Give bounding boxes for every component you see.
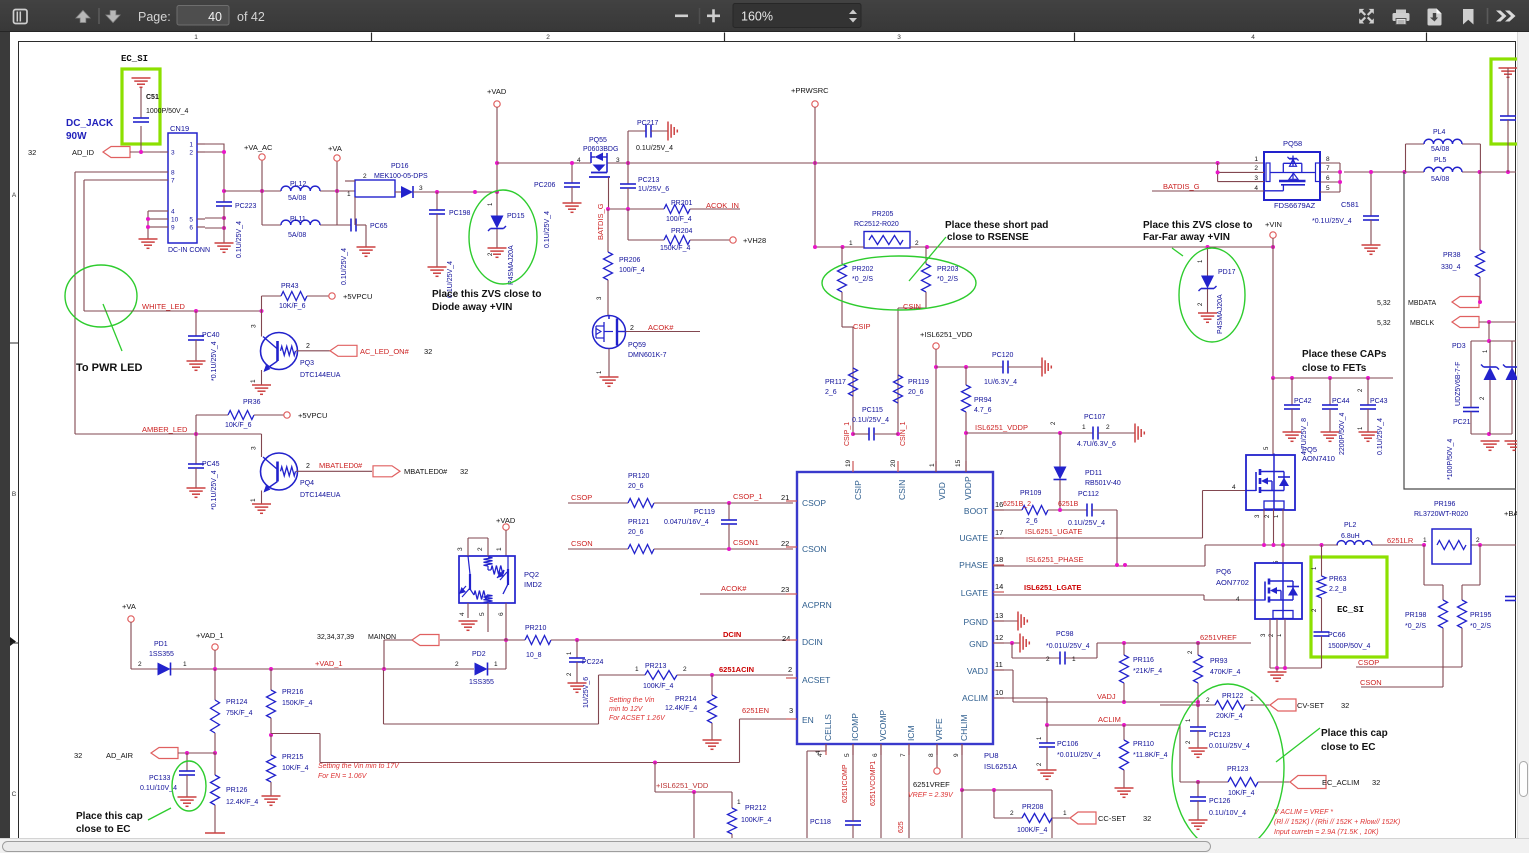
svg-text:FDS6679AZ: FDS6679AZ [1274, 201, 1316, 210]
svg-text:CHLIM: CHLIM [959, 715, 969, 741]
svg-text:PC217: PC217 [637, 120, 659, 127]
svg-text:13: 13 [995, 611, 1003, 620]
svg-text:10K/F_6: 10K/F_6 [279, 303, 306, 310]
svg-text:5: 5 [189, 217, 193, 224]
svg-text:DCIN: DCIN [723, 630, 741, 639]
svg-text:4: 4 [1232, 484, 1236, 491]
svg-text:AC_LED_ON#: AC_LED_ON# [360, 347, 410, 356]
svg-text:PR119: PR119 [908, 379, 929, 386]
svg-text:1500P/50V_4: 1500P/50V_4 [1328, 643, 1371, 650]
svg-text:To PWR LED: To PWR LED [76, 362, 142, 374]
svg-text:AD_ID: AD_ID [72, 148, 95, 157]
svg-text:6251VREF: 6251VREF [913, 780, 950, 789]
svg-text:15: 15 [955, 459, 962, 467]
svg-text:CSIN: CSIN [903, 302, 921, 311]
svg-text:PQ3: PQ3 [300, 360, 314, 367]
svg-text:*0.1U/25V_4: *0.1U/25V_4 [1312, 218, 1352, 225]
svg-text:CSON: CSON [1360, 678, 1382, 687]
svg-text:PR195: PR195 [1470, 612, 1492, 619]
svg-text:ACLIM: ACLIM [962, 693, 988, 703]
svg-text:PD11: PD11 [1085, 470, 1102, 477]
svg-text:PR214: PR214 [675, 696, 697, 703]
svg-text:150K/F_4: 150K/F_4 [282, 700, 312, 707]
svg-text:PD16: PD16 [391, 163, 409, 170]
svg-text:2: 2 [477, 547, 484, 551]
svg-text:PC65: PC65 [370, 223, 388, 230]
svg-text:2: 2 [306, 463, 310, 470]
svg-text:1: 1 [189, 142, 193, 149]
svg-text:PR213: PR213 [645, 663, 667, 670]
svg-text:PQ6: PQ6 [1216, 567, 1231, 576]
svg-text:PR206: PR206 [619, 257, 641, 264]
svg-text:6.8uH: 6.8uH [1341, 533, 1360, 540]
svg-text:*0.01U/25V_4: *0.01U/25V_4 [1046, 643, 1090, 650]
svg-text:32: 32 [424, 347, 432, 356]
svg-text:*11.8K/F_4: *11.8K/F_4 [1133, 752, 1168, 759]
svg-text:ICM: ICM [906, 725, 916, 741]
svg-text:32: 32 [1341, 701, 1349, 710]
svg-text:1000P/50V_4: 1000P/50V_4 [146, 108, 189, 115]
svg-text:of 42: of 42 [237, 10, 265, 24]
svg-text:*0_2/S: *0_2/S [852, 276, 873, 283]
svg-text:PR126: PR126 [226, 787, 248, 794]
svg-text:100K/F_4: 100K/F_4 [741, 817, 771, 824]
svg-text:24: 24 [782, 634, 790, 643]
svg-text:VDDP: VDDP [963, 476, 973, 500]
svg-text:DTC144EUA: DTC144EUA [300, 492, 341, 499]
svg-text:PR216: PR216 [282, 689, 304, 696]
svg-text:2: 2 [1106, 424, 1110, 431]
svg-text:0.1U/25V_4: 0.1U/25V_4 [236, 221, 243, 258]
svg-text:Place this ZVS close to: Place this ZVS close to [432, 289, 541, 300]
svg-text:RL3720WT-R020: RL3720WT-R020 [1414, 511, 1468, 518]
svg-text:6: 6 [498, 612, 505, 616]
svg-text:B: B [12, 491, 16, 498]
svg-text:2: 2 [306, 343, 310, 350]
svg-text:CSIP_1: CSIP_1 [844, 422, 851, 446]
svg-text:3: 3 [897, 34, 901, 41]
svg-text:1: 1 [1072, 656, 1076, 663]
svg-text:PC224: PC224 [582, 659, 604, 666]
svg-text:6251EN: 6251EN [742, 706, 769, 715]
svg-text:+VIN: +VIN [1265, 220, 1282, 229]
svg-text:14: 14 [995, 582, 1003, 591]
svg-text:8: 8 [928, 753, 935, 757]
svg-text:3: 3 [789, 706, 793, 715]
svg-text:3: 3 [457, 547, 464, 551]
svg-text:PC123: PC123 [1209, 732, 1231, 739]
svg-text:EC_SI: EC_SI [1337, 605, 1364, 615]
svg-text:*0.01U/25V_4: *0.01U/25V_4 [1057, 752, 1101, 759]
svg-text:32: 32 [1143, 814, 1151, 823]
svg-text:PR36: PR36 [243, 399, 261, 406]
svg-text:7: 7 [900, 753, 907, 757]
svg-text:330_4: 330_4 [1441, 264, 1461, 271]
svg-text:2: 2 [1046, 656, 1050, 663]
svg-text:2: 2 [915, 240, 919, 247]
svg-text:8: 8 [1326, 156, 1330, 163]
svg-text:*0_2/S: *0_2/S [937, 276, 958, 283]
svg-text:PC40: PC40 [202, 332, 220, 339]
svg-text:20: 20 [890, 459, 897, 467]
svg-text:DCIN: DCIN [802, 637, 823, 647]
svg-text:PC120: PC120 [992, 352, 1014, 359]
svg-text:+VA: +VA [328, 144, 342, 153]
svg-text:Place this cap: Place this cap [1321, 728, 1388, 739]
svg-text:6251VREF: 6251VREF [1200, 633, 1237, 642]
svg-text:PQ55: PQ55 [589, 137, 607, 144]
svg-text:ACPRN: ACPRN [802, 600, 832, 610]
svg-text:PC112: PC112 [1078, 491, 1099, 498]
svg-text:20_6: 20_6 [628, 483, 644, 490]
svg-text:PQ2: PQ2 [524, 570, 539, 579]
svg-text:EC_SI: EC_SI [121, 54, 148, 64]
svg-text:470K/F_4: 470K/F_4 [1210, 669, 1240, 676]
svg-text:MEK100-05-DPS: MEK100-05-DPS [374, 173, 428, 180]
svg-text:PL2: PL2 [1344, 522, 1357, 529]
svg-text:17: 17 [995, 528, 1003, 537]
svg-text:V ACLIM = VREF *: V ACLIM = VREF * [1274, 809, 1333, 816]
svg-text:PQ58: PQ58 [1283, 139, 1302, 148]
svg-text:5A/08: 5A/08 [1431, 176, 1449, 183]
svg-text:625: 625 [898, 821, 905, 833]
svg-text:2: 2 [1476, 537, 1480, 544]
svg-text:PHASE: PHASE [959, 560, 988, 570]
svg-text:6251B: 6251B [1058, 501, 1079, 508]
svg-text:ISL6251_UGATE: ISL6251_UGATE [1025, 527, 1082, 536]
svg-text:PC66: PC66 [1328, 632, 1346, 639]
svg-text:1: 1 [1082, 424, 1086, 431]
svg-text:+5VPCU: +5VPCU [298, 411, 327, 420]
svg-text:18: 18 [995, 555, 1003, 564]
svg-text:1: 1 [1063, 810, 1067, 817]
svg-text:6251ACIN: 6251ACIN [719, 665, 754, 674]
svg-text:100/F_4: 100/F_4 [666, 216, 692, 223]
svg-text:PR116: PR116 [1133, 657, 1154, 664]
svg-text:10: 10 [171, 217, 179, 224]
svg-text:PC223: PC223 [235, 203, 257, 210]
svg-text:ACSET: ACSET [802, 675, 830, 685]
svg-text:ICOMP: ICOMP [850, 713, 860, 741]
svg-text:5A/08: 5A/08 [288, 195, 306, 202]
svg-text:5: 5 [844, 753, 851, 757]
svg-text:EC_ACLIM: EC_ACLIM [1322, 778, 1360, 787]
svg-text:4.7_6: 4.7_6 [974, 407, 992, 414]
svg-text:PR63: PR63 [1329, 576, 1347, 583]
svg-text:4: 4 [1236, 596, 1240, 603]
svg-text:4: 4 [577, 157, 581, 164]
svg-text:+PRWSRC: +PRWSRC [791, 86, 829, 95]
svg-text:PL12: PL12 [290, 181, 306, 188]
svg-text:PC107: PC107 [1084, 414, 1106, 421]
svg-text:PC133: PC133 [149, 775, 171, 782]
svg-text:AON7410: AON7410 [1302, 454, 1335, 463]
svg-text:11: 11 [995, 660, 1003, 669]
svg-text:2_6: 2_6 [825, 389, 837, 396]
svg-text:2200P/50V_4: 2200P/50V_4 [1339, 412, 1346, 455]
svg-text:1SS355: 1SS355 [469, 679, 494, 686]
svg-text:IMD2: IMD2 [524, 580, 542, 589]
svg-text:12.4K/F_4: 12.4K/F_4 [665, 705, 697, 712]
svg-text:For ACSET 1.26V: For ACSET 1.26V [609, 715, 666, 722]
svg-text:10_8: 10_8 [526, 652, 542, 659]
svg-text:90W: 90W [66, 131, 87, 142]
svg-text:3: 3 [1254, 175, 1258, 182]
svg-text:23: 23 [781, 585, 789, 594]
svg-text:CSON: CSON [802, 544, 827, 554]
svg-text:For EN = 1.06V: For EN = 1.06V [318, 773, 368, 780]
svg-text:PC21: PC21 [1453, 419, 1471, 426]
svg-text:PD2: PD2 [472, 651, 486, 658]
svg-text:PR212: PR212 [745, 805, 767, 812]
svg-text:1SS355: 1SS355 [149, 651, 174, 658]
svg-text:3: 3 [251, 446, 258, 450]
svg-text:PR201: PR201 [671, 200, 693, 207]
svg-text:ACOK#: ACOK# [721, 584, 747, 593]
svg-text:close to EC: close to EC [76, 824, 130, 835]
svg-text:20_6: 20_6 [628, 529, 644, 536]
svg-text:100/F_4: 100/F_4 [619, 267, 645, 274]
svg-text:+ISL6251_VDD: +ISL6251_VDD [656, 781, 709, 790]
svg-text:PR124: PR124 [226, 699, 248, 706]
svg-text:4.7U/6.3V_6: 4.7U/6.3V_6 [1077, 441, 1116, 448]
svg-text:PC45: PC45 [202, 461, 220, 468]
svg-text:GND: GND [969, 639, 988, 649]
svg-text:RB501V-40: RB501V-40 [1085, 480, 1121, 487]
svg-text:6: 6 [1326, 175, 1330, 182]
svg-text:0.1U/25V_4: 0.1U/25V_4 [636, 145, 673, 152]
svg-text:UGATE: UGATE [959, 533, 988, 543]
svg-text:2: 2 [455, 661, 459, 668]
svg-text:1: 1 [1254, 156, 1258, 163]
svg-text:*0_2/S: *0_2/S [1405, 623, 1426, 630]
svg-text:PGND: PGND [963, 617, 988, 627]
svg-text:C51: C51 [146, 94, 159, 101]
svg-text:PR109: PR109 [1020, 490, 1042, 497]
svg-text:DC_JACK: DC_JACK [66, 118, 114, 129]
svg-text:VADJ: VADJ [967, 666, 988, 676]
svg-text:8: 8 [171, 170, 175, 177]
svg-text:20K/F_4: 20K/F_4 [1216, 713, 1243, 720]
svg-text:CSOP: CSOP [1358, 658, 1379, 667]
svg-text:C: C [12, 791, 17, 798]
svg-text:EN: EN [802, 715, 814, 725]
svg-text:MBATLED0#: MBATLED0# [404, 467, 448, 476]
svg-text:ACLIM: ACLIM [1098, 715, 1121, 724]
svg-text:PR117: PR117 [825, 379, 846, 386]
svg-text:close to RSENSE: close to RSENSE [947, 232, 1029, 243]
svg-text:2: 2 [546, 34, 550, 41]
svg-text:+VA: +VA [122, 602, 136, 611]
svg-text:Place this ZVS close to: Place this ZVS close to [1143, 220, 1252, 231]
svg-text:VDD: VDD [937, 482, 947, 500]
svg-text:3: 3 [419, 185, 423, 192]
svg-text:CSOP: CSOP [802, 498, 826, 508]
svg-text:DMN601K-7: DMN601K-7 [628, 352, 667, 359]
svg-text:PL5: PL5 [1434, 157, 1447, 164]
svg-text:0.1U/10V_4: 0.1U/10V_4 [1209, 810, 1246, 817]
svg-text:7: 7 [1326, 165, 1330, 172]
svg-text:2: 2 [1206, 697, 1210, 704]
svg-text:160%: 160% [741, 10, 773, 24]
svg-text:5,32: 5,32 [1377, 320, 1391, 327]
svg-text:5: 5 [479, 612, 486, 616]
svg-text:BOOT: BOOT [964, 506, 988, 516]
svg-text:ACOK#: ACOK# [648, 323, 674, 332]
svg-text:PR202: PR202 [852, 266, 874, 273]
svg-text:6251VCOMP1: 6251VCOMP1 [870, 761, 877, 806]
svg-text:CSIP: CSIP [853, 322, 871, 331]
svg-text:MBCLK: MBCLK [1410, 320, 1434, 327]
svg-text:PR196: PR196 [1434, 501, 1456, 508]
svg-text:32: 32 [28, 148, 36, 157]
svg-text:3: 3 [171, 150, 175, 157]
svg-text:0.1U/25V_4: 0.1U/25V_4 [341, 248, 348, 285]
svg-text:20_6: 20_6 [908, 389, 924, 396]
svg-text:*0_2/S: *0_2/S [1470, 623, 1491, 630]
svg-text:PC198: PC198 [449, 210, 471, 217]
svg-text:AON7702: AON7702 [1216, 578, 1249, 587]
svg-text:*21K/F_4: *21K/F_4 [1133, 668, 1162, 675]
svg-text:32,34,37,39: 32,34,37,39 [317, 634, 354, 641]
svg-text:PR205: PR205 [872, 211, 894, 218]
svg-text:9: 9 [171, 225, 175, 232]
svg-text:MBATLED0#: MBATLED0# [319, 461, 363, 470]
svg-text:+VAD_1: +VAD_1 [196, 631, 224, 640]
svg-text:P4SMAJ20A: P4SMAJ20A [1217, 294, 1224, 334]
svg-text:32: 32 [1372, 778, 1380, 787]
svg-text:6: 6 [872, 753, 879, 757]
svg-text:Input curretn = 2.9A (71.5K ,: Input curretn = 2.9A (71.5K , 10K) [1274, 829, 1379, 836]
svg-text:Place this cap: Place this cap [76, 811, 143, 822]
svg-text:PU8: PU8 [984, 751, 999, 760]
svg-text:Diode away +VIN: Diode away +VIN [432, 302, 512, 313]
svg-text:PR120: PR120 [628, 473, 650, 480]
svg-text:PR210: PR210 [525, 625, 547, 632]
svg-text:PQ4: PQ4 [300, 480, 314, 487]
svg-text:1U/25V_6: 1U/25V_6 [638, 186, 669, 193]
svg-text:C581: C581 [1341, 200, 1359, 209]
svg-text:1: 1 [347, 191, 351, 198]
svg-text:min to 12V: min to 12V [609, 706, 644, 713]
svg-text:Page:: Page: [138, 10, 171, 24]
svg-text:7: 7 [171, 178, 175, 185]
svg-text:PC106: PC106 [1057, 741, 1079, 748]
svg-text:close to EC: close to EC [1321, 742, 1375, 753]
svg-text:1: 1 [1250, 696, 1254, 703]
svg-text:PR94: PR94 [974, 397, 992, 404]
svg-text:1: 1 [250, 498, 257, 502]
svg-text:*100P/50V_4: *100P/50V_4 [1447, 439, 1454, 480]
svg-text:PR123: PR123 [1227, 766, 1249, 773]
svg-text:VCOMP: VCOMP [878, 710, 888, 742]
svg-text:1: 1 [929, 463, 936, 467]
svg-text:6251LR: 6251LR [1387, 536, 1414, 545]
svg-text:CSON: CSON [571, 539, 593, 548]
svg-text:4: 4 [1251, 34, 1255, 41]
svg-text:PC119: PC119 [694, 509, 715, 516]
svg-text:DTC144EUA: DTC144EUA [300, 372, 341, 379]
svg-text:P4SMAJ20A: P4SMAJ20A [508, 245, 515, 285]
svg-text:A: A [12, 192, 17, 199]
svg-text:VREF = 2.39V: VREF = 2.39V [908, 792, 954, 799]
svg-text:150K/F_4: 150K/F_4 [660, 245, 690, 252]
svg-text:1: 1 [1423, 537, 1427, 544]
svg-text:(Rl // 152K) / (Rhi // 152K +: (Rl // 152K) / (Rhi // 152K + Rlow// 152… [1274, 819, 1400, 826]
svg-text:UDZ5V6B-7-F: UDZ5V6B-7-F [1455, 362, 1462, 406]
svg-text:BATDIS_G: BATDIS_G [1163, 182, 1200, 191]
svg-text:PR208: PR208 [1022, 804, 1044, 811]
svg-text:PL4: PL4 [1433, 129, 1446, 136]
svg-text:PD1: PD1 [154, 641, 168, 648]
svg-text:CSOP: CSOP [571, 493, 592, 502]
svg-text:10K/F_4: 10K/F_4 [282, 765, 309, 772]
svg-text:AD_AIR: AD_AIR [106, 751, 134, 760]
svg-text:MBDATA: MBDATA [1408, 300, 1436, 307]
svg-text:BATDIS_G: BATDIS_G [596, 203, 605, 240]
svg-text:1U/6.3V_4: 1U/6.3V_4 [984, 379, 1017, 386]
svg-text:close to FETs: close to FETs [1302, 363, 1367, 374]
svg-text:12: 12 [995, 633, 1003, 642]
svg-text:12.4K/F_4: 12.4K/F_4 [226, 799, 258, 806]
svg-text:1: 1 [250, 379, 257, 383]
svg-text:4: 4 [171, 209, 175, 216]
svg-text:10K/F_4: 10K/F_4 [1228, 790, 1255, 797]
svg-text:1: 1 [496, 547, 503, 551]
svg-text:5: 5 [1326, 185, 1330, 192]
svg-text:LGATE: LGATE [961, 588, 989, 598]
svg-text:0.1U/25V_4: 0.1U/25V_4 [852, 417, 889, 424]
svg-text:PD15: PD15 [507, 213, 525, 220]
svg-text:1: 1 [849, 240, 853, 247]
svg-text:5A/08: 5A/08 [288, 232, 306, 239]
svg-text:1: 1 [494, 661, 498, 668]
svg-text:PR203: PR203 [937, 266, 959, 273]
svg-text:2: 2 [630, 325, 634, 332]
svg-text:PR215: PR215 [282, 754, 304, 761]
svg-text:1: 1 [635, 666, 639, 673]
svg-text:ISL6251A: ISL6251A [984, 762, 1017, 771]
svg-text:2: 2 [1010, 810, 1014, 817]
svg-text:6: 6 [189, 225, 193, 232]
svg-text:PR204: PR204 [671, 228, 693, 235]
svg-text:CSOP_1: CSOP_1 [733, 492, 763, 501]
svg-text:ISL6251_VDDP: ISL6251_VDDP [975, 423, 1028, 432]
svg-text:CV-SET: CV-SET [1297, 701, 1325, 710]
svg-text:CSIP: CSIP [853, 480, 863, 500]
svg-text:PC44: PC44 [1332, 398, 1350, 405]
svg-text:5,32: 5,32 [1377, 300, 1391, 307]
svg-text:3: 3 [251, 324, 258, 328]
svg-text:2: 2 [788, 665, 792, 674]
svg-text:+VH28: +VH28 [743, 236, 766, 245]
svg-text:*0.1U/25V_4: *0.1U/25V_4 [211, 470, 218, 510]
svg-text:2_6: 2_6 [1026, 518, 1038, 525]
svg-text:PR43: PR43 [281, 283, 299, 290]
svg-text:0.1U/25V_4: 0.1U/25V_4 [1068, 520, 1105, 527]
svg-text:75K/F_4: 75K/F_4 [226, 710, 253, 717]
svg-text:PR122: PR122 [1222, 693, 1244, 700]
svg-text:PC42: PC42 [1294, 398, 1312, 405]
svg-text:32: 32 [460, 467, 468, 476]
svg-text:PR38: PR38 [1443, 252, 1461, 259]
svg-text:PR93: PR93 [1210, 658, 1228, 665]
svg-text:10K/F_6: 10K/F_6 [225, 422, 252, 429]
svg-text:WHITE_LED: WHITE_LED [142, 302, 186, 311]
svg-text:0.047U/16V_4: 0.047U/16V_4 [664, 519, 709, 526]
svg-text:DC-IN CONN: DC-IN CONN [168, 247, 210, 254]
svg-text:32: 32 [74, 751, 82, 760]
